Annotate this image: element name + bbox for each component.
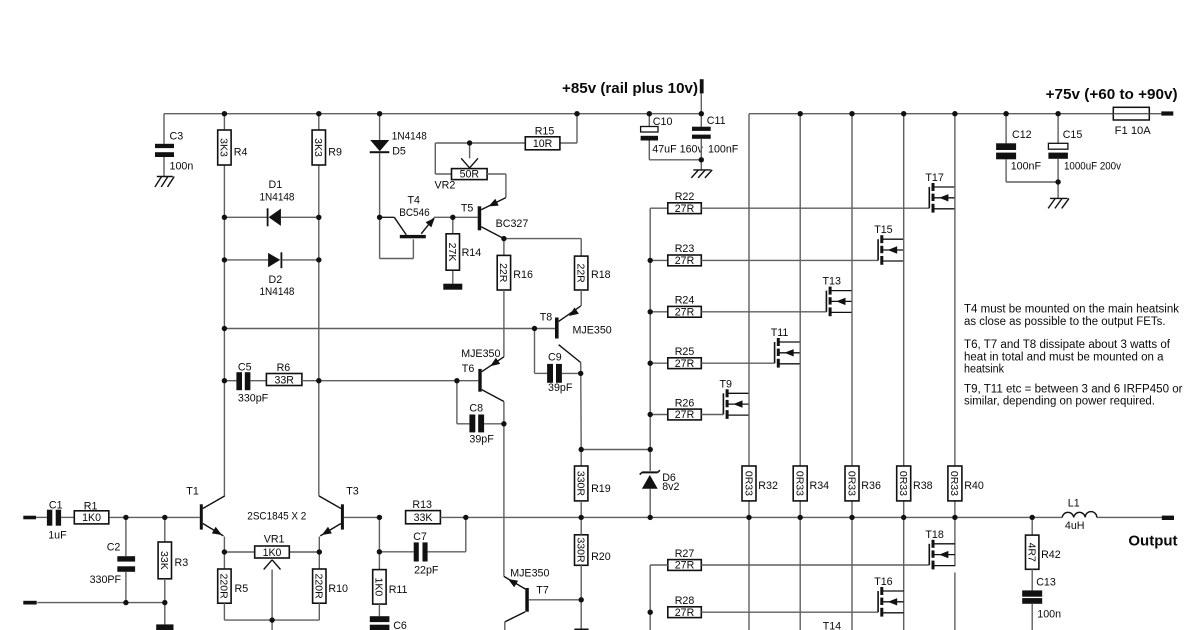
- svg-text:39pF: 39pF: [548, 382, 573, 394]
- svg-text:R6: R6: [277, 362, 291, 374]
- svg-text:27R: 27R: [675, 255, 695, 267]
- svg-text:BC327: BC327: [496, 218, 529, 230]
- svg-text:1N4148: 1N4148: [392, 131, 427, 143]
- svg-text:8v2: 8v2: [662, 481, 679, 493]
- svg-text:27K: 27K: [446, 243, 458, 262]
- svg-text:T3: T3: [346, 485, 359, 497]
- svg-text:330R: 330R: [575, 471, 587, 497]
- svg-text:Output: Output: [1128, 533, 1177, 550]
- svg-text:MJE350: MJE350: [461, 348, 500, 360]
- svg-text:D2: D2: [269, 274, 283, 286]
- svg-text:27R: 27R: [675, 307, 695, 319]
- svg-text:33K: 33K: [414, 512, 433, 524]
- svg-text:100nF: 100nF: [1011, 161, 1042, 173]
- svg-text:27R: 27R: [675, 358, 695, 370]
- svg-text:C8: C8: [469, 403, 483, 415]
- svg-text:T18: T18: [925, 529, 943, 541]
- svg-text:C2: C2: [107, 542, 121, 554]
- svg-text:as close as possible to the ou: as close as possible to the output FETs.: [964, 316, 1166, 328]
- svg-text:0R33: 0R33: [845, 471, 857, 496]
- svg-text:1K0: 1K0: [82, 512, 101, 524]
- svg-text:+85v (rail plus 10v): +85v (rail plus 10v): [562, 80, 698, 97]
- svg-text:T8: T8: [540, 312, 553, 324]
- svg-text:T15: T15: [874, 224, 892, 236]
- svg-text:0R33: 0R33: [948, 471, 960, 496]
- svg-text:R23: R23: [675, 243, 695, 255]
- svg-text:27R: 27R: [675, 203, 695, 215]
- svg-text:T6, T7 and T8 dissipate about: T6, T7 and T8 dissipate about 3 watts of: [964, 339, 1171, 351]
- svg-text:3K3: 3K3: [312, 138, 324, 157]
- svg-text:220R: 220R: [218, 574, 230, 600]
- svg-text:C10: C10: [653, 116, 673, 128]
- svg-text:27R: 27R: [675, 607, 695, 619]
- svg-text:D1: D1: [269, 179, 283, 191]
- svg-text:R1: R1: [84, 500, 98, 512]
- svg-text:MJE350: MJE350: [510, 567, 549, 579]
- svg-text:D5: D5: [392, 145, 406, 157]
- svg-text:R22: R22: [675, 191, 695, 203]
- svg-text:R18: R18: [591, 269, 611, 281]
- svg-text:L1: L1: [1068, 498, 1080, 510]
- svg-text:10R: 10R: [533, 138, 553, 150]
- svg-text:R25: R25: [675, 346, 695, 358]
- svg-text:R32: R32: [758, 480, 778, 492]
- svg-text:T9, T11 etc = between 3 and 6: T9, T11 etc = between 3 and 6 IRFP450 or: [964, 384, 1183, 396]
- svg-text:33K: 33K: [158, 551, 170, 570]
- svg-text:R10: R10: [328, 583, 348, 595]
- svg-text:T1: T1: [186, 485, 199, 497]
- svg-text:C1: C1: [49, 500, 63, 512]
- svg-text:3K3: 3K3: [218, 138, 230, 157]
- svg-text:R24: R24: [675, 295, 695, 307]
- svg-text:T14: T14: [823, 621, 841, 630]
- svg-text:330PF: 330PF: [90, 574, 122, 586]
- svg-text:C12: C12: [1012, 129, 1032, 141]
- svg-text:T16: T16: [874, 576, 892, 588]
- svg-text:1K0: 1K0: [263, 547, 282, 559]
- svg-text:4R7: 4R7: [1026, 543, 1038, 562]
- svg-text:C3: C3: [170, 130, 184, 142]
- svg-text:50R: 50R: [460, 169, 480, 181]
- svg-text:330R: 330R: [575, 537, 587, 563]
- svg-text:R28: R28: [675, 595, 695, 607]
- svg-text:R42: R42: [1041, 549, 1061, 561]
- svg-text:4uH: 4uH: [1065, 520, 1085, 532]
- svg-text:R34: R34: [810, 480, 830, 492]
- svg-text:22pF: 22pF: [414, 565, 439, 577]
- svg-text:R38: R38: [913, 480, 933, 492]
- svg-text:2SC1845 X 2: 2SC1845 X 2: [247, 511, 306, 523]
- svg-text:47uF 160v: 47uF 160v: [652, 144, 703, 156]
- svg-text:R27: R27: [675, 548, 695, 560]
- svg-text:T9: T9: [720, 378, 733, 390]
- svg-text:T5: T5: [461, 203, 474, 215]
- svg-text:R11: R11: [389, 584, 408, 596]
- svg-text:0R33: 0R33: [794, 471, 806, 496]
- svg-text:heat in total and must be moun: heat in total and must be mounted on a: [964, 351, 1164, 363]
- svg-text:C9: C9: [548, 351, 562, 363]
- svg-text:R20: R20: [591, 551, 611, 563]
- svg-text:BC546: BC546: [399, 207, 430, 219]
- svg-text:100nF: 100nF: [708, 144, 739, 156]
- svg-text:MJE350: MJE350: [573, 325, 612, 337]
- svg-text:C15: C15: [1063, 129, 1083, 141]
- svg-text:22R: 22R: [575, 263, 587, 283]
- svg-text:heatsink: heatsink: [964, 364, 1004, 376]
- svg-text:39pF: 39pF: [469, 433, 494, 445]
- svg-text:R9: R9: [328, 146, 342, 158]
- svg-text:100n: 100n: [1037, 609, 1061, 621]
- svg-text:VR2: VR2: [435, 179, 456, 191]
- svg-text:+75v (+60 to +90v): +75v (+60 to +90v): [1046, 86, 1178, 103]
- svg-text:R16: R16: [513, 269, 533, 281]
- svg-text:R36: R36: [861, 480, 881, 492]
- svg-text:R3: R3: [175, 557, 189, 569]
- svg-text:22R: 22R: [497, 263, 509, 283]
- svg-text:T7: T7: [536, 585, 549, 597]
- svg-text:33R: 33R: [274, 374, 294, 386]
- svg-text:C5: C5: [238, 361, 252, 373]
- svg-text:T6: T6: [462, 363, 475, 375]
- svg-text:VR1: VR1: [264, 533, 285, 545]
- svg-text:T13: T13: [823, 276, 841, 288]
- svg-text:R13: R13: [412, 499, 432, 511]
- svg-text:F1 10A: F1 10A: [1115, 125, 1152, 137]
- svg-text:R15: R15: [535, 126, 555, 138]
- svg-text:R40: R40: [964, 480, 984, 492]
- svg-text:C13: C13: [1036, 577, 1056, 589]
- svg-text:1N4148: 1N4148: [260, 286, 295, 298]
- svg-text:1K0: 1K0: [373, 578, 385, 597]
- svg-text:C11: C11: [707, 115, 726, 127]
- svg-text:R19: R19: [591, 483, 611, 495]
- svg-text:27R: 27R: [675, 409, 695, 421]
- svg-text:1uF: 1uF: [48, 530, 67, 542]
- svg-text:R26: R26: [675, 397, 695, 409]
- svg-text:330pF: 330pF: [238, 392, 269, 404]
- svg-text:100n: 100n: [170, 161, 194, 173]
- svg-text:T11: T11: [771, 327, 789, 339]
- svg-text:220R: 220R: [313, 574, 325, 600]
- svg-text:27R: 27R: [675, 560, 695, 572]
- svg-text:similar, depending on power re: similar, depending on power required.: [964, 396, 1155, 408]
- svg-text:R14: R14: [462, 247, 482, 259]
- svg-text:C6: C6: [393, 620, 407, 630]
- svg-text:T17: T17: [925, 172, 943, 184]
- svg-text:0R33: 0R33: [742, 471, 754, 496]
- svg-text:1000uF 200v: 1000uF 200v: [1064, 160, 1122, 172]
- svg-text:R4: R4: [234, 146, 248, 158]
- svg-text:T4: T4: [408, 194, 421, 206]
- svg-text:T4 must be mounted on the main: T4 must be mounted on the main heatsink: [964, 304, 1179, 316]
- svg-text:0R33: 0R33: [897, 471, 909, 496]
- svg-text:C7: C7: [413, 531, 427, 543]
- svg-text:1N4148: 1N4148: [260, 192, 295, 204]
- svg-text:R5: R5: [235, 583, 249, 595]
